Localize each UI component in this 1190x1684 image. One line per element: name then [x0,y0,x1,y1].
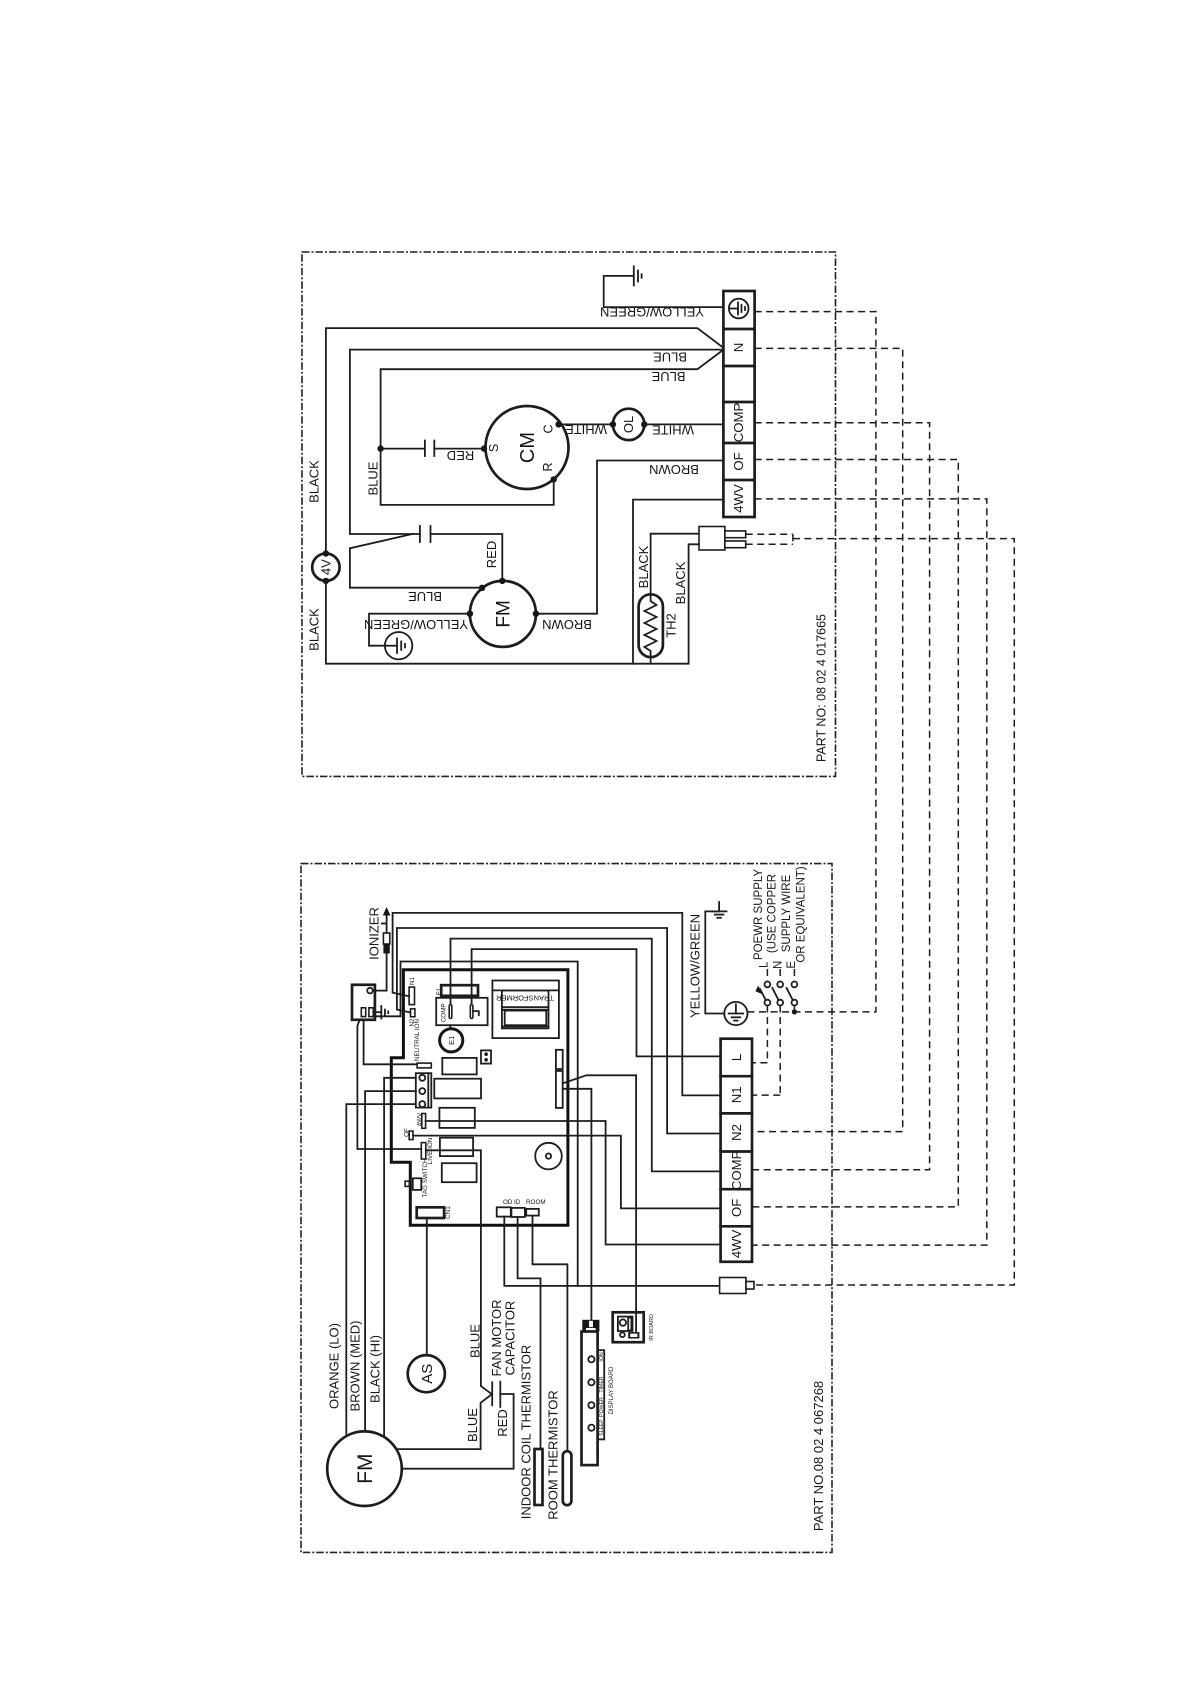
switch E [787,969,798,1015]
wire OF pin to terminal OF [413,1136,721,1209]
svg-text:4V: 4V [318,559,333,575]
svg-text:(USE COPPER: (USE COPPER [767,874,779,953]
svg-text:BROWN: BROWN [542,617,592,632]
ground circle (FM earth) [385,632,412,659]
wire RED cap to FM [431,534,503,581]
ground symbol (power earth) [712,902,727,918]
board edge connector C [556,1071,563,1108]
wire 4WV pin to terminal 4WV [426,1121,721,1245]
terminal earth symbol in circle [729,299,749,319]
thermistor TH2 [639,594,679,657]
buzzer [535,1143,562,1170]
dashed link plug to plug [746,534,1015,1285]
svg-text:BLUE: BLUE [366,461,381,495]
transformer [492,981,559,1039]
pin N1 [409,987,414,1005]
pin NEUTRAL ION [417,1063,431,1068]
wire WHITE C to OL [559,423,613,425]
relay block R4 [440,1138,473,1156]
svg-text:OF: OF [729,1199,744,1217]
wire BLACK from 4V to N [326,328,723,553]
fan switch blade [350,534,413,548]
connector CN1 [417,1206,452,1219]
earth circle (indoor) [724,1002,747,1025]
svg-text:WHITE: WHITE [565,422,607,437]
svg-text:IR BOARD: IR BOARD [649,1314,655,1341]
wire BROWN (MED) [365,1091,416,1431]
terminal block TB2 (indoor) [721,1039,752,1262]
fan motor FM (indoor) [327,1431,402,1506]
svg-text:ROOM THERMISTOR: ROOM THERMISTOR [546,1390,561,1520]
capacitor C2 (FM cap) [420,526,431,542]
indoor coil thermistor [519,1345,543,1520]
svg-text:CAPACITOR: CAPACITOR [503,1301,518,1376]
svg-text:OD: OD [503,1199,513,1206]
wire R to junction [381,449,554,505]
wire LIVE ION to fan capacitor blue [398,1150,492,1449]
tact switch TAG [405,1158,429,1198]
svg-text:RED: RED [484,541,499,568]
svg-text:L: L [759,961,771,968]
svg-text:COMP: COMP [731,403,746,443]
main control PCB outline [391,970,568,1226]
svg-text:BLACK: BLACK [307,608,322,651]
svg-text:SLEEP: SLEEP [599,1419,605,1436]
svg-text:PART NO: 08 02 4 017665: PART NO: 08 02 4 017665 [815,614,829,762]
svg-text:YELLOW/GREEN: YELLOW/GREEN [600,304,704,319]
svg-text:N: N [772,961,784,969]
relay block R2 [434,1079,481,1099]
dashed link earth terminal to indoor earth [748,312,876,1012]
svg-text:NEUTRAL ION: NEUTRAL ION [414,1019,421,1062]
auto swing motor AS [408,1355,445,1392]
svg-text:CN1: CN1 [445,1206,452,1219]
fan motor capacitor [492,1382,500,1407]
svg-text:BLACK: BLACK [673,561,688,604]
svg-text:BLUE: BLUE [408,589,442,604]
connector CN (3 pin fan speed) [416,1073,432,1107]
dashed link N terminal to indoor N2 [752,348,903,1131]
wire connector C to display board [563,1089,592,1320]
svg-text:FM: FM [354,1454,377,1484]
wire TH2 top to plug [651,534,699,595]
svg-text:COMP: COMP [441,1003,448,1022]
wire fuse to L terminal [472,949,721,1056]
pins OD ID ROOM [497,1199,546,1217]
overload protector OL [610,409,648,440]
svg-text:YELLOW/GREEN: YELLOW/GREEN [688,914,703,1018]
switch N [752,969,783,1095]
svg-text:YELLOW/GREEN: YELLOW/GREEN [364,617,468,632]
varistor E1 [440,1025,463,1052]
svg-text:OL: OL [621,416,636,433]
svg-text:R: R [541,462,555,471]
ground symbol (outdoor frame earth) [634,266,642,285]
pin OF [409,1131,413,1140]
dashed link OF terminal to indoor OF [752,460,958,1207]
svg-text:CM: CM [517,432,539,463]
svg-text:ORANGE (LO): ORANGE (LO) [327,1323,342,1409]
svg-text:N2: N2 [729,1124,744,1141]
wire switch to cap [350,533,420,535]
svg-text:N1: N1 [409,976,416,985]
svg-text:ID: ID [514,1199,521,1206]
wire BLUE FM branch [350,548,482,587]
svg-text:IONIZER: IONIZER [367,907,382,960]
svg-text:OR EQUIVALENT): OR EQUIVALENT) [796,866,808,962]
svg-text:BLUE: BLUE [465,1408,480,1442]
svg-text:N: N [731,343,746,353]
wire N1 pin to terminal N1 [393,913,721,1096]
wire CN1 to AS [426,1218,428,1355]
dashed link 4WV terminal to indoor 4WV [752,499,987,1245]
relay block R5 [442,1163,477,1182]
indoor unit enclosure border [301,864,832,1553]
wire TH2 bottom to bus [650,657,652,664]
svg-text:DISPLAY BOARD: DISPLAY BOARD [609,1366,615,1414]
wire 4WV terminal to black bus [633,500,723,664]
wire YELLOW/GREEN to top ground [705,911,724,1013]
wire ORANGE (LO) [346,1104,416,1435]
svg-text:BLUE: BLUE [651,369,685,384]
svg-text:POWER: POWER [599,1397,605,1417]
board edge connector B [556,1050,563,1069]
svg-text:ROOM: ROOM [526,1199,546,1206]
ionizer power unit box [352,985,387,1020]
connector plug (outdoor) [699,527,746,551]
connector plug (indoor) [720,1278,754,1294]
jumper block with 2 pins [481,1050,491,1063]
fuse F1 [436,985,478,996]
4-way valve coil 4V [312,550,339,584]
svg-text:TIMER: TIMER [599,1376,605,1392]
wire ID pin to indoor thermistor [518,1217,541,1449]
svg-text:S: S [487,444,501,452]
wire FM to ground circle [369,614,470,646]
svg-text:OF: OF [731,452,746,470]
pin LIVE ION [421,1143,426,1159]
ground symbol (ionizer) [373,1006,388,1019]
svg-text:COMP: COMP [729,1150,744,1190]
svg-text:4WV: 4WV [731,484,746,513]
svg-text:BLUE: BLUE [468,1324,483,1358]
svg-text:POEWR SUPPLY: POEWR SUPPLY [753,869,765,960]
svg-text:RED: RED [495,1409,510,1436]
svg-text:INDOOR COIL THERMISTOR: INDOOR COIL THERMISTOR [519,1345,534,1520]
relay block R1 [442,1058,476,1075]
wire connector C to IR board [563,1075,636,1332]
wire BLUE CM branch to N [381,350,724,449]
svg-text:AS: AS [419,1364,436,1384]
wire BLACK bus bottom [326,544,699,663]
svg-text:E: E [786,961,798,969]
wire ionizer unit to LIVE ION pin [357,1020,421,1149]
switch L [752,969,770,1063]
wire OD pin to plug [504,1217,719,1286]
capacitor C1 (CM start cap) [377,441,484,457]
wire WHITE OL to COMP [644,423,723,425]
wire yellow/green from earth terminal [604,276,724,307]
display board [582,1320,616,1465]
svg-text:PART NO.08 02 4 067268: PART NO.08 02 4 067268 [811,1381,826,1531]
svg-text:SUPPLY WIRE: SUPPLY WIRE [781,874,793,952]
svg-text:C: C [542,424,556,433]
room thermistor [546,1390,572,1520]
terminal block TB1 (outdoor) [723,291,754,517]
wire BLACK (HI) [384,1078,416,1436]
svg-text:FM: FM [493,600,514,627]
svg-text:BLACK (HI): BLACK (HI) [368,1335,383,1403]
wire N2 pin to terminal N2 [397,928,721,1134]
fan motor FM (outdoor) [467,578,539,647]
compressor motor CM [481,406,569,489]
wire ionizer unit to NEUTRAL ION pin [364,1020,418,1065]
wire BROWN OF to FM [536,461,724,614]
IR board [613,1312,655,1342]
wire BLUE N to fan switch [350,350,723,534]
svg-text:BROWN (MED): BROWN (MED) [348,1321,363,1412]
wire ROOM pin to room thermistor [533,1216,568,1452]
ionizer antenna [382,907,391,991]
svg-text:4WV: 4WV [729,1230,744,1259]
svg-text:L: L [729,1054,744,1061]
outdoor unit enclosure border [302,252,836,776]
svg-text:BLACK: BLACK [307,460,322,503]
relay COMP on board [436,998,487,1025]
svg-text:TAG SWITCH: TAG SWITCH [422,1158,429,1198]
wire RED cap to FM [402,1394,514,1469]
svg-text:BROWN: BROWN [649,462,699,477]
svg-text:WHITE: WHITE [652,422,694,437]
pin 4WV [422,1114,426,1129]
wire fuse to COMP terminal [451,939,721,1172]
svg-text:ION: ION [599,1352,605,1361]
svg-text:TRANSFORMER: TRANSFORMER [495,994,554,1003]
svg-text:RED: RED [447,448,474,463]
svg-text:TH2: TH2 [664,613,679,638]
svg-text:N1: N1 [729,1086,744,1103]
relay block R3 [439,1108,474,1128]
pin N2 [411,1009,415,1017]
svg-text:BLACK: BLACK [636,545,651,588]
svg-text:E1: E1 [447,1036,456,1045]
svg-text:BLUE: BLUE [653,350,687,365]
wire neutral ion loop to display feed [375,962,578,1286]
dashed link COMP terminal to indoor COMP [752,423,930,1170]
